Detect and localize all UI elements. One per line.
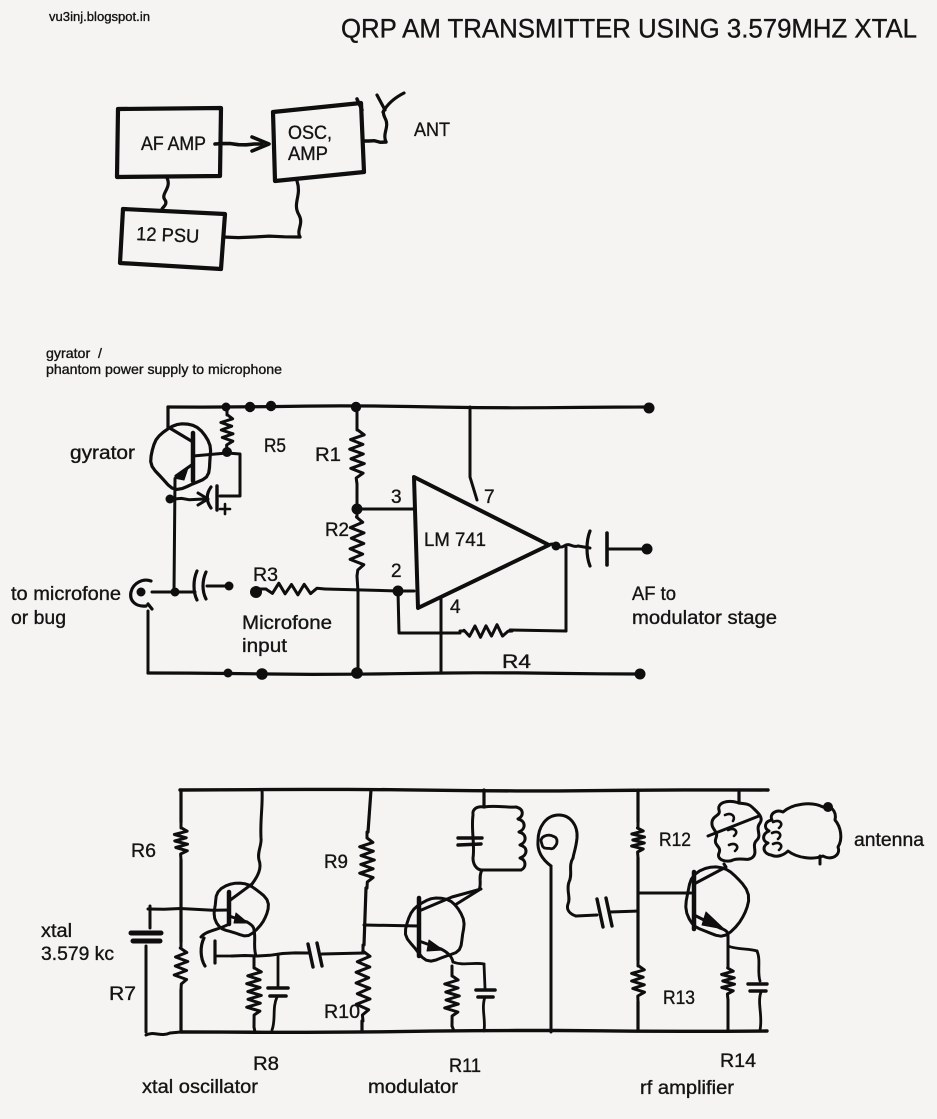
svg-text:R12: R12 [659,830,691,851]
svg-text:Microfone: Microfone [242,613,332,634]
svg-text:2: 2 [391,561,402,582]
svg-text:R8: R8 [253,1054,279,1075]
svg-text:R2: R2 [325,520,349,541]
svg-text:xtal oscillator: xtal oscillator [142,1077,259,1098]
svg-text:4: 4 [450,597,461,618]
svg-text:OSC,: OSC, [288,123,332,144]
svg-text:R14: R14 [720,1051,756,1072]
svg-text:to microfone: to microfone [11,584,121,605]
svg-text:xtal: xtal [41,921,72,942]
svg-text:12 PSU: 12 PSU [136,224,200,248]
svg-text:gyrator /: gyrator / [46,345,102,361]
svg-text:or bug: or bug [11,608,66,629]
svg-text:input: input [242,636,288,657]
svg-text:R10: R10 [324,1002,360,1023]
svg-text:R13: R13 [663,988,695,1009]
svg-text:7: 7 [484,487,495,508]
svg-text:AF AMP: AF AMP [141,134,206,155]
svg-text:R9: R9 [324,852,348,873]
svg-text:QRP AM TRANSMITTER USING 3.579: QRP AM TRANSMITTER USING 3.579MHZ XTAL [341,14,917,44]
svg-text:R6: R6 [131,841,156,862]
svg-text:3: 3 [391,487,402,508]
svg-text:gyrator: gyrator [70,443,136,464]
svg-text:antenna: antenna [854,830,924,851]
svg-text:R3: R3 [253,565,278,586]
svg-text:phantom power supply to microp: phantom power supply to microphone [46,361,282,377]
svg-text:rf amplifier: rf amplifier [640,1078,735,1099]
svg-text:R11: R11 [449,1056,481,1077]
svg-text:LM 741: LM 741 [424,530,486,551]
svg-text:vu3inj.blogspot.in: vu3inj.blogspot.in [49,9,150,24]
svg-text:AMP: AMP [288,144,328,165]
svg-text:ANT: ANT [414,120,450,141]
svg-text:R1: R1 [315,445,341,466]
svg-text:R4: R4 [502,652,532,673]
svg-text:AF to: AF to [632,584,676,605]
svg-text:modulator: modulator [368,1077,459,1098]
svg-text:modulator stage: modulator stage [632,608,777,629]
svg-text:R5: R5 [264,436,286,457]
svg-text:R7: R7 [109,984,136,1005]
svg-text:3.579 kc: 3.579 kc [41,944,114,965]
